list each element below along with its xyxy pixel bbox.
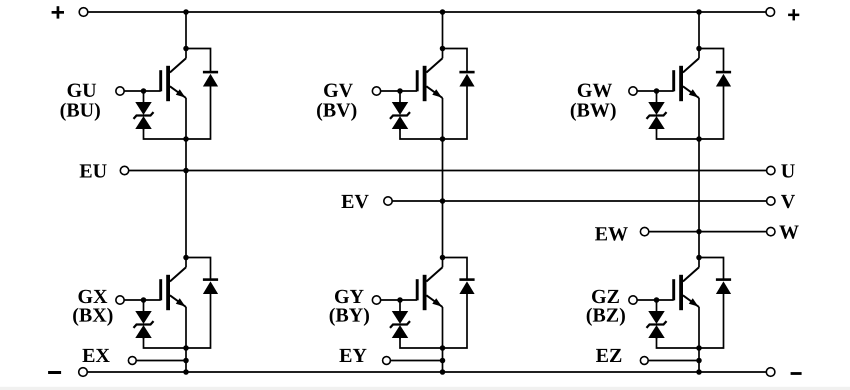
- freewheel diode lower U: [203, 280, 218, 294]
- wire zener return to emitter node GV: [400, 129, 443, 139]
- junction N rail / leg W: [696, 369, 702, 375]
- wire zener return to emitter node GU: [144, 129, 187, 139]
- label EU: [80, 164, 107, 177]
- junction gate/zener tap GW: [654, 88, 660, 94]
- terminal phase W: [767, 227, 775, 235]
- zener pair gate-emitter GX: [134, 300, 154, 339]
- wire gate GZ: [637, 299, 674, 301]
- freewheel diode upper U: [203, 72, 218, 86]
- wire diode anode to emitter node lower V: [443, 294, 468, 348]
- junction gate/zener tap GU: [141, 88, 147, 94]
- label + left: [52, 6, 64, 18]
- freewheel diode upper V: [459, 72, 474, 86]
- wire EU / phase output U: [129, 170, 767, 172]
- label + right: [788, 9, 799, 20]
- wire collector node to freewheel diode cathode lower U: [186, 258, 211, 280]
- terminal EY: [383, 357, 391, 365]
- wire phase leg U (upper emitter to lower collector): [185, 139, 187, 258]
- IGBT upper U (gate GU): [159, 49, 186, 140]
- label EX: [82, 349, 109, 362]
- junction upper collector node V: [440, 46, 446, 52]
- IGBT upper W (gate GW): [672, 49, 699, 140]
- wire gate GX: [124, 299, 161, 301]
- label GV: [324, 84, 353, 98]
- wire collector node to freewheel diode cathode lower V: [443, 258, 468, 280]
- terminal N negative left: [79, 368, 88, 377]
- label (BW): [571, 103, 616, 121]
- wire zener return to emitter node GW: [657, 129, 700, 139]
- label phase V: [781, 195, 795, 208]
- wire collector node to freewheel diode cathode upper U: [186, 49, 211, 73]
- junction EW on leg W: [696, 229, 702, 235]
- label (BY): [330, 308, 369, 326]
- zener pair gate-emitter GY: [390, 300, 410, 339]
- terminal EZ: [640, 357, 648, 365]
- zener pair gate-emitter GU: [134, 91, 154, 130]
- label GZ: [592, 290, 619, 303]
- wire gate GW: [637, 90, 674, 92]
- wire EX: [136, 360, 186, 362]
- IGBT lower U (gate GX): [159, 258, 186, 349]
- freewheel diode lower V: [459, 280, 474, 294]
- junction upper emitter node W: [696, 136, 702, 142]
- label GU: [68, 84, 97, 97]
- terminal EW: [640, 227, 648, 235]
- junction lower emitter node V: [440, 345, 446, 351]
- junction N rail / leg U: [183, 369, 189, 375]
- wire gate GU: [124, 90, 161, 92]
- label phase U: [781, 164, 794, 177]
- label EW: [595, 227, 628, 240]
- label (BU): [61, 103, 100, 121]
- wire diode anode to emitter node lower W: [699, 294, 724, 348]
- wire diode anode to emitter node upper U: [186, 86, 211, 139]
- IGBT lower V (gate GY): [416, 258, 443, 349]
- label minus left: [48, 371, 61, 374]
- junction upper emitter node U: [183, 136, 189, 142]
- zener pair gate-emitter GV: [390, 91, 410, 130]
- terminal EU: [120, 166, 128, 174]
- label EV: [341, 195, 368, 208]
- terminal phase U: [767, 166, 775, 174]
- terminal GZ: [629, 296, 637, 304]
- freewheel diode upper W: [716, 72, 731, 86]
- zener pair gate-emitter GW: [647, 91, 667, 130]
- label (BV): [317, 103, 356, 121]
- junction gate/zener tap GZ: [654, 297, 660, 303]
- junction gate/zener tap GY: [397, 297, 403, 303]
- terminal phase V: [767, 197, 775, 205]
- junction P rail / leg W: [696, 9, 702, 15]
- junction EY tap: [440, 358, 446, 364]
- junction gate/zener tap GV: [397, 88, 403, 94]
- wire diode anode to emitter node upper V: [443, 86, 468, 139]
- junction EZ tap: [696, 358, 702, 364]
- wire zener return to emitter node GZ: [657, 338, 700, 348]
- wire P rail to upper collector node W: [698, 12, 700, 49]
- junction lower collector node V: [440, 255, 446, 261]
- wire collector node to freewheel diode cathode lower W: [699, 258, 724, 280]
- wire phase leg W (upper emitter to lower collector): [698, 139, 700, 258]
- terminal GY: [372, 296, 380, 304]
- terminal P positive right: [766, 8, 775, 17]
- label phase W: [779, 226, 798, 239]
- junction upper collector node W: [696, 46, 702, 52]
- wire zener return to emitter node GY: [400, 338, 443, 348]
- junction lower emitter node W: [696, 345, 702, 351]
- terminal GV: [372, 87, 380, 95]
- wire EZ: [648, 360, 699, 362]
- label GX: [78, 290, 107, 303]
- wire diode anode to emitter node lower U: [186, 294, 211, 348]
- wire EY: [391, 360, 443, 362]
- wire gate GY: [381, 299, 418, 301]
- junction lower collector node W: [696, 255, 702, 261]
- zener pair gate-emitter GZ: [647, 300, 667, 339]
- label minus right: [791, 372, 802, 375]
- label EY: [339, 349, 366, 362]
- terminal GU: [116, 87, 124, 95]
- label GW: [578, 84, 612, 98]
- terminal EX: [128, 357, 136, 365]
- wire EW / phase output W: [649, 231, 766, 233]
- label GY: [335, 290, 364, 303]
- freewheel diode lower W: [716, 280, 731, 294]
- terminal GX: [116, 296, 124, 304]
- wire N rail: [88, 371, 766, 373]
- terminal N negative right: [766, 368, 775, 377]
- terminal P positive left: [79, 8, 88, 17]
- wire P rail: [88, 11, 765, 13]
- wire zener return to emitter node GX: [144, 338, 187, 348]
- wire gate GV: [381, 90, 418, 92]
- junction N rail / leg V: [440, 369, 446, 375]
- wire lower emitter node to N rail V: [442, 348, 444, 372]
- terminal GW: [629, 87, 637, 95]
- junction EU on leg U: [183, 168, 189, 174]
- wire EV / phase output V: [392, 200, 766, 202]
- wire collector node to freewheel diode cathode upper W: [699, 49, 724, 73]
- wire diode anode to emitter node upper W: [699, 86, 724, 139]
- wire P rail to upper collector node U: [185, 12, 187, 49]
- junction gate/zener tap GX: [141, 297, 147, 303]
- junction upper emitter node V: [440, 136, 446, 142]
- wire lower emitter node to N rail U: [185, 348, 187, 372]
- junction EX tap: [183, 358, 189, 364]
- junction P rail / leg U: [183, 9, 189, 15]
- wire lower emitter node to N rail W: [698, 348, 700, 372]
- junction lower emitter node U: [183, 345, 189, 351]
- junction EV on leg V: [440, 198, 446, 204]
- label EZ: [596, 349, 621, 362]
- wire P rail to upper collector node V: [442, 12, 444, 49]
- junction lower collector node U: [183, 255, 189, 261]
- wire phase leg V (upper emitter to lower collector): [442, 139, 444, 258]
- IGBT lower W (gate GZ): [672, 258, 699, 349]
- wire collector node to freewheel diode cathode upper V: [443, 49, 468, 73]
- junction upper collector node U: [183, 46, 189, 52]
- label (BX): [73, 308, 112, 326]
- IGBT upper V (gate GV): [416, 49, 443, 140]
- label (BZ): [587, 308, 625, 326]
- junction P rail / leg V: [440, 9, 446, 15]
- terminal EV: [384, 197, 392, 205]
